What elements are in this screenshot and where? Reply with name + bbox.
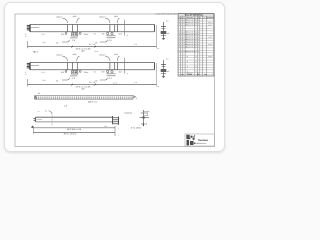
svg-text:w8: w8 <box>167 32 169 35</box>
svg-text:p3/8: p3/8 <box>73 15 77 18</box>
svg-text:2B1: 2B1 <box>81 50 84 53</box>
svg-text:7: 7 <box>118 127 119 130</box>
svg-text:p28'-0 x 11: p28'-0 x 11 <box>88 101 97 104</box>
svg-text:6: 6 <box>127 72 128 75</box>
svg-text:12: 12 <box>195 34 197 36</box>
svg-text:12: 12 <box>195 41 197 43</box>
svg-text:x 134: x 134 <box>208 22 212 24</box>
svg-text:5-9: 5-9 <box>102 71 105 74</box>
svg-text:3'-11 13/16: 3'-11 13/16 <box>131 127 142 130</box>
svg-text:12: 12 <box>195 37 197 39</box>
svg-text:3: 3 <box>136 97 137 100</box>
svg-text:R1: R1 <box>157 47 159 50</box>
svg-text:2': 2' <box>25 33 27 36</box>
svg-text:p3/8: p3/8 <box>73 53 77 56</box>
svg-text:xx: xx <box>38 111 40 113</box>
svg-text:3/4: 3/4 <box>104 125 106 128</box>
svg-text:2L3x3x1/4: 2L3x3x1/4 <box>124 111 132 114</box>
svg-text:Thornton: Thornton <box>198 139 209 142</box>
svg-text:W8x10 x 12'-3: W8x10 x 12'-3 <box>185 50 195 53</box>
svg-text:c8x11.5: c8x11.5 <box>56 16 62 19</box>
svg-text:7-8: 7-8 <box>93 71 96 74</box>
svg-text:1/4: 1/4 <box>38 92 41 95</box>
svg-text:2B2 1: 2B2 1 <box>33 50 39 53</box>
svg-text:4x4: 4x4 <box>118 71 121 74</box>
svg-text:x 134: x 134 <box>208 37 212 39</box>
svg-text:2'-3: 2'-3 <box>108 77 111 80</box>
svg-text:2-6: 2-6 <box>61 71 64 74</box>
svg-text:3'-4: 3'-4 <box>42 33 45 36</box>
svg-text:1'-0: 1'-0 <box>134 81 137 84</box>
svg-text:12: 12 <box>195 20 197 22</box>
svg-text:c8x11.5: c8x11.5 <box>56 54 62 57</box>
svg-text:7/8: 7/8 <box>56 79 58 82</box>
svg-text:12: 12 <box>195 24 197 26</box>
svg-text:w8: w8 <box>167 70 169 73</box>
svg-text:8821 133: 8821 133 <box>187 72 193 74</box>
svg-text:1'-0: 1'-0 <box>134 43 137 46</box>
svg-text:W8x10 x 12'-3: W8x10 x 12'-3 <box>185 19 195 22</box>
svg-text:c8x11.5: c8x11.5 <box>99 16 105 19</box>
svg-text:12: 12 <box>195 39 197 41</box>
svg-text:x 3-4: x 3-4 <box>94 50 98 53</box>
svg-text:24'-7 1/2: 24'-7 1/2 <box>89 81 96 84</box>
svg-text:1'-0: 1'-0 <box>166 58 169 61</box>
svg-text:12: 12 <box>195 46 197 48</box>
svg-text:p3/8: p3/8 <box>114 15 118 18</box>
svg-text:2-6: 2-6 <box>61 33 64 36</box>
svg-text:SEC B: SEC B <box>141 122 148 125</box>
svg-text:3'-4: 3'-4 <box>42 71 45 74</box>
svg-text:24'-7 1/2: 24'-7 1/2 <box>89 43 96 46</box>
svg-text:7: 7 <box>118 134 119 137</box>
svg-text:5-9: 5-9 <box>102 33 105 36</box>
svg-text:x 134: x 134 <box>208 56 212 58</box>
svg-text:x 134: x 134 <box>208 44 212 46</box>
svg-text:8'-4: 8'-4 <box>43 41 46 44</box>
svg-text:x 1-0: x 1-0 <box>113 82 117 85</box>
svg-text:7-8: 7-8 <box>93 33 96 36</box>
svg-text:p3/8: p3/8 <box>114 53 118 56</box>
svg-text:12: 12 <box>195 32 197 34</box>
svg-text:R1: R1 <box>157 85 159 88</box>
svg-text:x 134: x 134 <box>208 24 212 26</box>
svg-text:fabricators inc: fabricators inc <box>196 142 206 145</box>
svg-text:28'-2 3/16 + 1/16: 28'-2 3/16 + 1/16 <box>67 128 81 131</box>
svg-text:7/8: 7/8 <box>56 41 58 44</box>
svg-text:W8x10 x 12'-3: W8x10 x 12'-3 <box>185 31 195 34</box>
svg-text:2': 2' <box>25 71 27 74</box>
svg-text:xx: xx <box>148 111 150 113</box>
svg-text:2B1: 2B1 <box>81 88 84 91</box>
svg-text:xx: xx <box>45 110 47 112</box>
svg-text:1'-0: 1'-0 <box>166 20 169 23</box>
svg-text:4x4: 4x4 <box>118 33 121 36</box>
svg-text:2'-3: 2'-3 <box>108 39 111 42</box>
svg-text:x 3/16 STIFF R BOTH SIDE: x 3/16 STIFF R BOTH SIDE <box>155 13 178 16</box>
svg-text:12: 12 <box>195 44 197 46</box>
svg-text:3.5x4: 3.5x4 <box>84 71 89 74</box>
svg-text:12: 12 <box>195 22 197 24</box>
svg-text:c8x11.5: c8x11.5 <box>99 54 105 57</box>
svg-text:28'-5 c 1/8 x 5c: 28'-5 c 1/8 x 5c <box>64 133 77 136</box>
svg-text:3.5x4: 3.5x4 <box>84 33 89 36</box>
svg-text:12: 12 <box>195 51 197 53</box>
svg-text:1'-0: 1'-0 <box>72 39 76 42</box>
svg-text:1'-0: 1'-0 <box>72 77 76 80</box>
svg-text:1'-0: 1'-0 <box>64 105 67 108</box>
svg-text:6: 6 <box>127 34 128 37</box>
svg-text:8'-4: 8'-4 <box>43 79 46 82</box>
